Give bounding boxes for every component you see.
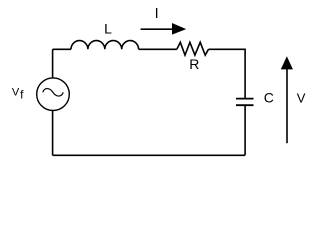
svg-text:I: I xyxy=(155,6,159,22)
svg-text:L: L xyxy=(104,20,112,36)
svg-text:R: R xyxy=(189,56,199,72)
svg-text:V: V xyxy=(12,87,20,99)
svg-text:C: C xyxy=(264,90,274,106)
svg-text:V: V xyxy=(297,91,306,106)
